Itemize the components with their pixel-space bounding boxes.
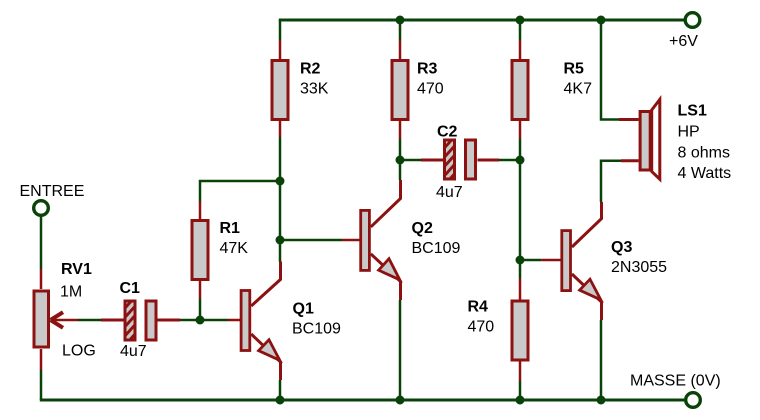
svg-text:ENTREE: ENTREE bbox=[20, 183, 85, 200]
wire wiper to C1 bbox=[78, 319, 101, 322]
svg-text:R1: R1 bbox=[220, 220, 241, 237]
svg-text:4u7: 4u7 bbox=[120, 343, 147, 360]
wire R3 column bbox=[399, 20, 402, 180]
svg-text:470: 470 bbox=[468, 319, 495, 336]
wire Q3 base bbox=[520, 259, 541, 262]
wire R5 column bbox=[519, 20, 522, 400]
svg-text:R3: R3 bbox=[417, 61, 438, 78]
terminal ENTREE bbox=[20, 183, 85, 215]
node ground / Q1 emitter bbox=[276, 396, 285, 405]
wire speaker top feed bbox=[601, 20, 619, 120]
svg-text:Q2: Q2 bbox=[412, 220, 433, 237]
svg-text:C2: C2 bbox=[437, 124, 458, 141]
wire Q2 emitter to ground bbox=[399, 300, 402, 400]
node R3 bottom / C2 bbox=[396, 156, 405, 165]
svg-text:BC109: BC109 bbox=[292, 320, 341, 337]
svg-text:BC109: BC109 bbox=[412, 240, 461, 257]
transistor Q1 bbox=[228, 262, 341, 381]
wire Q3 emitter to ground bbox=[600, 320, 603, 400]
node ground / Q3 emitter bbox=[597, 396, 606, 405]
svg-text:Q1: Q1 bbox=[293, 300, 314, 317]
node top rail / LS1 feed bbox=[597, 16, 606, 25]
svg-text:470: 470 bbox=[417, 81, 444, 98]
resistor R5 bbox=[512, 40, 592, 139]
wire speaker bottom to Q3 collector bbox=[601, 161, 621, 202]
wire top rail +6V bbox=[279, 19, 684, 22]
capacitor C1 bbox=[101, 280, 180, 360]
svg-text:R2: R2 bbox=[300, 61, 321, 78]
terminal +6V bbox=[669, 13, 700, 50]
wire C1 to Q1 base bbox=[180, 319, 228, 322]
node top rail / R5 bbox=[516, 16, 525, 25]
node R5 bottom / C2 bbox=[516, 156, 525, 165]
capacitor C2 bbox=[421, 124, 499, 201]
wire C2 right bbox=[499, 159, 520, 162]
svg-text:C1: C1 bbox=[120, 280, 141, 297]
svg-text:1M: 1M bbox=[60, 284, 82, 301]
svg-text:R4: R4 bbox=[468, 299, 489, 316]
terminal MASSE (0V) bbox=[630, 373, 721, 408]
wire Q1 emitter to ground bbox=[279, 380, 282, 400]
svg-text:LS1: LS1 bbox=[678, 103, 707, 120]
svg-text:+6V: +6V bbox=[669, 33, 698, 50]
svg-text:4 Watts: 4 Watts bbox=[678, 165, 732, 182]
svg-text:47K: 47K bbox=[220, 240, 249, 257]
transistor Q2 bbox=[342, 180, 461, 300]
svg-text:R5: R5 bbox=[564, 61, 585, 78]
svg-text:8 ohms: 8 ohms bbox=[678, 144, 730, 161]
wire node to R1 top bbox=[200, 181, 280, 201]
svg-text:Q3: Q3 bbox=[611, 239, 632, 256]
svg-text:4u7: 4u7 bbox=[436, 184, 463, 201]
resistor R1 bbox=[192, 201, 248, 299]
svg-text:2N3055: 2N3055 bbox=[611, 259, 667, 276]
resistor R4 bbox=[468, 279, 529, 382]
resistor R2 bbox=[272, 40, 329, 137]
svg-text:4K7: 4K7 bbox=[564, 81, 593, 98]
node ground / R4 bbox=[516, 396, 525, 405]
node top rail / R3 bbox=[396, 16, 405, 25]
svg-text:HP: HP bbox=[678, 123, 700, 140]
wire R1 bottom to base line bbox=[199, 299, 202, 320]
speaker LS1 bbox=[619, 99, 731, 182]
potentiometer RV1 bbox=[34, 261, 96, 370]
node Q1 collector / Q2 base bbox=[276, 236, 285, 245]
wire bottom rail MASSE bbox=[40, 399, 685, 402]
svg-text:RV1: RV1 bbox=[61, 261, 92, 278]
wire Q1 collector node to Q2 base bbox=[280, 239, 342, 242]
wire R2 column bbox=[279, 20, 282, 262]
node R1 bottom / Q1 base bbox=[196, 316, 205, 325]
wire C2 left bbox=[400, 159, 421, 162]
node R4 top / Q3 base bbox=[516, 256, 525, 265]
node ground / Q2 emitter bbox=[396, 396, 405, 405]
wire left column ENTREE to RV1 and ground bbox=[40, 214, 43, 400]
node R2 bottom / R1 bbox=[276, 177, 285, 186]
resistor R3 bbox=[392, 40, 444, 139]
transistor Q3 bbox=[541, 202, 667, 320]
svg-text:LOG: LOG bbox=[62, 343, 96, 360]
svg-text:MASSE (0V): MASSE (0V) bbox=[630, 373, 721, 390]
svg-text:33K: 33K bbox=[300, 81, 329, 98]
